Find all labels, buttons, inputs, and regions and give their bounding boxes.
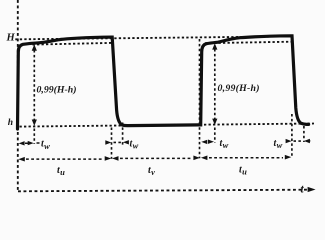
tw dimension 3 (rise 2) arrows [201, 140, 214, 145]
y-axis (dashed vertical at left) [17, 0, 19, 192]
H level dashed line [15, 36, 291, 39]
tu dimension span 2 [201, 155, 291, 160]
vertical ref line V4 at rise 2 start [199, 39, 201, 158]
time axis (dashed bottom) with arrow [18, 187, 316, 192]
vertical ref line V3 at fall 1 settled [122, 123, 124, 148]
waveform pulse 1 (rise, top, fall, low level) [18, 37, 200, 129]
svg-text:tu: tu [239, 165, 247, 177]
0.99 level dashed line pulse 1 [33, 43, 112, 45]
vertical ref line V1 at 0.99 crossing of rise 1, with up/down arrows [32, 44, 37, 144]
h level dashed line [20, 124, 315, 127]
svg-text:tw: tw [41, 139, 50, 151]
tw dimension 1 (rise 1) arrows and dashes [19, 141, 40, 146]
waveform pulse 2 (rise, top, fall, tail) [200, 36, 309, 125]
tw dimension 2 (fall 1) arrows outside [105, 140, 129, 145]
svg-text:h: h [8, 118, 13, 128]
svg-text:tu: tu [57, 165, 65, 177]
svg-text:H: H [6, 32, 16, 43]
svg-text:tw: tw [220, 138, 229, 150]
svg-text:0,99(H-h): 0,99(H-h) [218, 83, 260, 94]
svg-text:0,99(H-h): 0,99(H-h) [37, 84, 77, 95]
vertical ref line V5 at 0.99 crossing of rise 2, with up/down arrows [212, 43, 217, 143]
svg-text:tv: tv [148, 165, 155, 177]
svg-text:t: t [300, 182, 304, 196]
0.99 level dashed line pulse 2 [205, 42, 292, 44]
svg-text:tw: tw [130, 138, 139, 150]
tv dimension span [112, 156, 200, 161]
tu dimension span 1 [18, 156, 111, 161]
svg-text:tw: tw [274, 138, 283, 150]
tw dimension 4 (fall 2) arrows outside [286, 139, 311, 144]
vertical ref line V2 at fall 1 start [111, 128, 113, 159]
vertical ref line V6 at fall 2 start [291, 114, 293, 158]
vertical ref line V7 at fall 2 settled [303, 126, 305, 142]
